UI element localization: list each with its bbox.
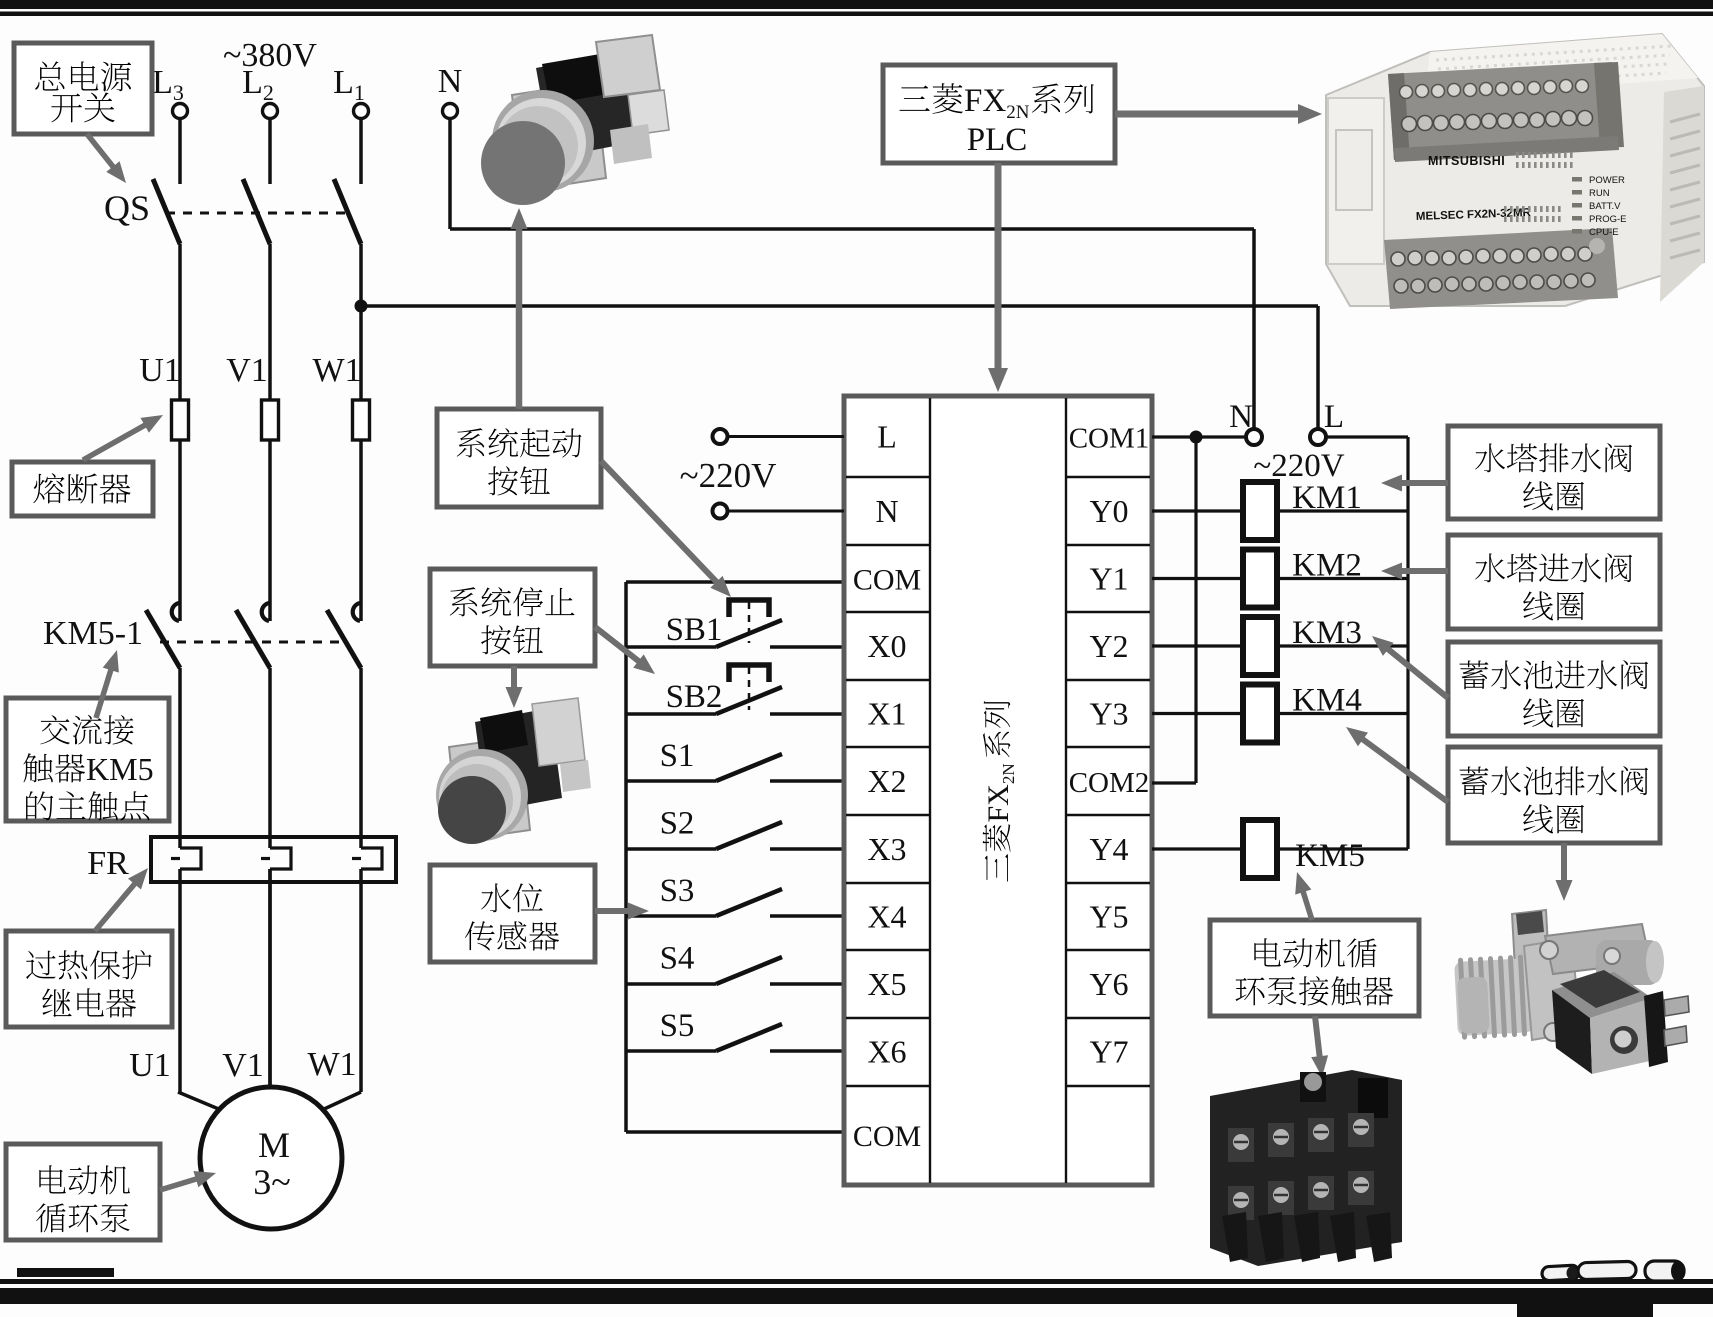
svg-text:Y1: Y1 xyxy=(1089,561,1128,597)
svg-text:S2: S2 xyxy=(660,806,695,842)
svg-text:FR: FR xyxy=(87,845,129,882)
svg-text:SB1: SB1 xyxy=(666,612,723,648)
svg-text:W1: W1 xyxy=(312,352,361,389)
svg-text:RUN: RUN xyxy=(1589,188,1610,199)
svg-text:M: M xyxy=(258,1125,290,1165)
svg-text:Y4: Y4 xyxy=(1089,831,1128,867)
svg-text:KM4: KM4 xyxy=(1292,683,1362,719)
svg-text:V1: V1 xyxy=(226,352,268,389)
svg-text:PROG-E: PROG-E xyxy=(1589,214,1626,225)
svg-text:X1: X1 xyxy=(867,696,906,732)
svg-text:S3: S3 xyxy=(660,873,695,909)
svg-text:X0: X0 xyxy=(867,628,906,664)
svg-text:V1: V1 xyxy=(222,1047,264,1084)
svg-text:SB2: SB2 xyxy=(666,679,723,715)
svg-text:POWER: POWER xyxy=(1589,175,1625,186)
svg-text:KM3: KM3 xyxy=(1292,615,1362,651)
svg-text:3~: 3~ xyxy=(253,1162,290,1202)
svg-text:PLC: PLC xyxy=(967,122,1028,158)
svg-text:CPU-E: CPU-E xyxy=(1589,227,1619,238)
svg-text:X5: X5 xyxy=(867,966,906,1002)
svg-text:KM5: KM5 xyxy=(86,751,154,787)
svg-text:Y5: Y5 xyxy=(1089,899,1128,935)
svg-text:~220V: ~220V xyxy=(1253,448,1344,484)
svg-text:COM2: COM2 xyxy=(1069,767,1150,799)
svg-text:X6: X6 xyxy=(867,1034,906,1070)
svg-text:U1: U1 xyxy=(129,1047,171,1084)
svg-text:Y0: Y0 xyxy=(1089,493,1128,529)
svg-text:~380V: ~380V xyxy=(223,37,317,74)
svg-text:Y2: Y2 xyxy=(1089,628,1128,664)
svg-text:COM1: COM1 xyxy=(1069,423,1150,455)
svg-text:KM2: KM2 xyxy=(1292,548,1362,584)
svg-text:BATT.V: BATT.V xyxy=(1589,201,1621,212)
svg-text:X2: X2 xyxy=(867,763,906,799)
svg-text:L: L xyxy=(1324,399,1344,435)
svg-text:S1: S1 xyxy=(660,738,695,774)
svg-text:MITSUBISHI: MITSUBISHI xyxy=(1428,154,1505,168)
svg-text:QS: QS xyxy=(104,188,150,228)
svg-text:Y6: Y6 xyxy=(1089,966,1128,1002)
svg-text:S4: S4 xyxy=(660,941,695,977)
svg-text:Y7: Y7 xyxy=(1089,1034,1128,1070)
svg-text:N: N xyxy=(438,63,463,100)
svg-text:U1: U1 xyxy=(139,352,181,389)
svg-text:~220V: ~220V xyxy=(680,456,777,495)
svg-text:COM: COM xyxy=(853,1120,921,1153)
svg-text:N: N xyxy=(875,493,898,529)
svg-text:KM5: KM5 xyxy=(1295,838,1365,874)
svg-text:X4: X4 xyxy=(867,899,906,935)
svg-text:L: L xyxy=(877,419,897,455)
svg-text:X3: X3 xyxy=(867,831,906,867)
svg-text:W1: W1 xyxy=(307,1046,356,1083)
svg-text:Y3: Y3 xyxy=(1089,696,1128,732)
svg-text:N: N xyxy=(1229,399,1253,435)
svg-text:KM1: KM1 xyxy=(1292,480,1362,516)
svg-text:S5: S5 xyxy=(660,1008,695,1044)
svg-text:KM5-1: KM5-1 xyxy=(43,615,143,652)
svg-text:COM: COM xyxy=(853,564,921,597)
